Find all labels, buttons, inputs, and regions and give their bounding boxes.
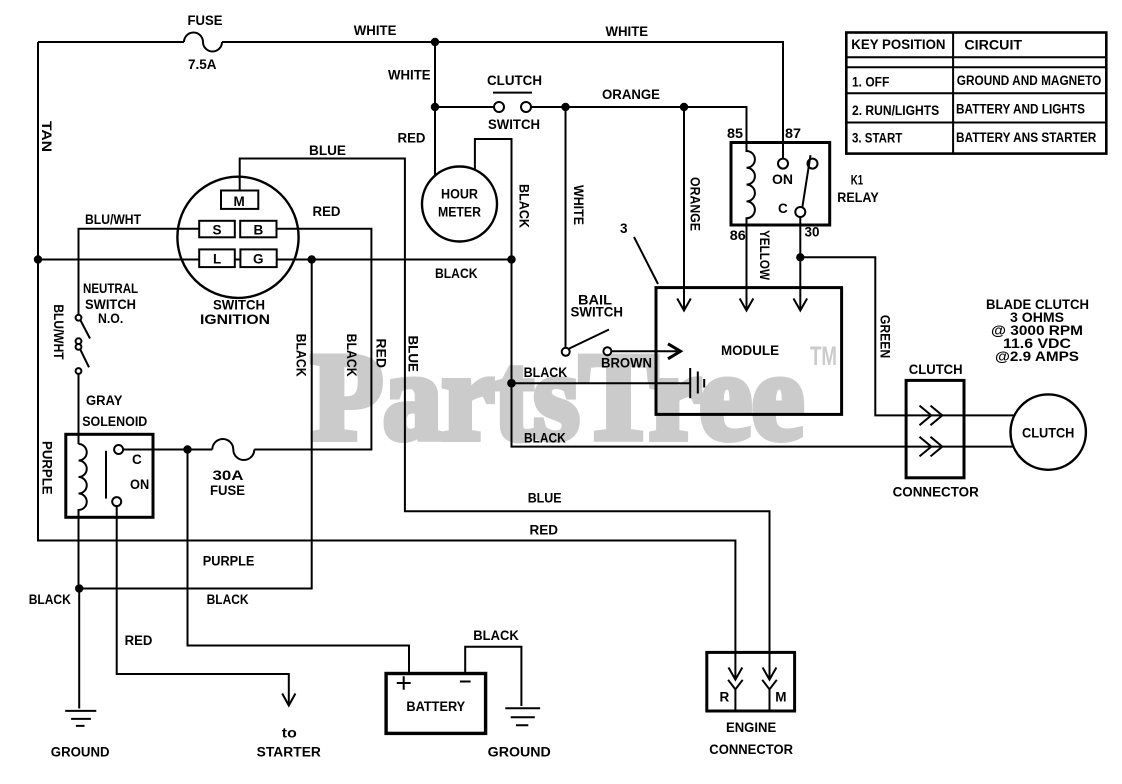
svg-text:SWITCH: SWITCH <box>213 298 265 313</box>
junction white drop <box>561 103 569 111</box>
neutral switch contact 3 <box>76 344 82 350</box>
relay K1 box <box>731 143 830 226</box>
junction module black <box>507 379 516 388</box>
junction top white <box>431 38 439 46</box>
svg-text:PURPLE: PURPLE <box>203 554 255 569</box>
wire ORANGE horizontal to relay pin 85 <box>531 107 747 143</box>
svg-text:ORANGE: ORANGE <box>602 87 660 102</box>
svg-text:RED: RED <box>313 204 341 219</box>
ignition terminal M <box>221 191 258 209</box>
svg-text:KEY POSITION: KEY POSITION <box>851 37 945 52</box>
svg-text:1. OFF: 1. OFF <box>852 75 889 90</box>
ground symbol right <box>505 708 540 725</box>
svg-text:HOUR: HOUR <box>441 187 478 202</box>
engine connector pin R fork <box>728 680 743 711</box>
key position table frame <box>846 33 1106 154</box>
svg-text:RED: RED <box>398 130 426 145</box>
main BLACK bus y=259.5 <box>38 259 512 261</box>
svg-text:to: to <box>282 726 297 741</box>
svg-text:7.5A: 7.5A <box>188 57 217 72</box>
svg-text:FUSE: FUSE <box>210 483 245 498</box>
engine connector pin M arrow <box>763 652 777 679</box>
svg-text:BLACK: BLACK <box>294 334 309 377</box>
starter arrowhead <box>282 694 295 706</box>
svg-text:CLUTCH: CLUTCH <box>909 362 963 377</box>
svg-text:2. RUN/LIGHTS: 2. RUN/LIGHTS <box>852 103 939 118</box>
svg-text:RED: RED <box>530 523 559 538</box>
wire BROWN bail switch to module with arrowhead <box>612 350 678 352</box>
fuse F1 7.5A symbol <box>184 33 222 52</box>
solenoid terminal C <box>114 445 123 454</box>
svg-text:TM: TM <box>810 341 837 371</box>
junction bus left <box>34 255 42 263</box>
neutral switch contact 1 <box>76 315 82 321</box>
wire BLACK vertical from bus to solenoid ground line <box>79 260 312 589</box>
svg-text:GRAY: GRAY <box>86 393 122 408</box>
junction relay 30 / green <box>796 253 804 261</box>
svg-text:BROWN: BROWN <box>601 356 652 371</box>
svg-text:RELAY: RELAY <box>837 190 878 205</box>
svg-text:M: M <box>234 194 245 209</box>
svg-text:B: B <box>254 223 264 238</box>
battery plus sign <box>397 676 411 690</box>
svg-text:IGNITION: IGNITION <box>200 312 270 327</box>
svg-text:G: G <box>253 252 264 267</box>
neutral switch contact 4 <box>76 368 82 374</box>
svg-text:GROUND: GROUND <box>488 744 551 759</box>
svg-text:BLACK: BLACK <box>344 334 359 377</box>
svg-text:30: 30 <box>805 225 820 240</box>
wire TAN/PURPLE left vertical + RED horizontal to engine connector R <box>38 42 735 652</box>
svg-text:BLACK: BLACK <box>435 266 478 281</box>
junction orange drop <box>680 103 688 111</box>
svg-text:ORANGE: ORANGE <box>688 177 703 231</box>
relay pin 87 contact ON <box>778 159 788 169</box>
engine connector pin R arrow <box>729 652 743 679</box>
svg-text:3. START: 3. START <box>852 131 903 146</box>
svg-text:CONNECTOR: CONNECTOR <box>893 485 979 500</box>
svg-text:YELLOW: YELLOW <box>757 230 772 280</box>
bail switch contact 2 <box>603 347 611 355</box>
module box <box>656 288 842 415</box>
wire BLU/WHT from ignition S to neutral switch <box>79 229 200 315</box>
fuse F2 30A symbol <box>212 439 254 460</box>
svg-text:K1: K1 <box>851 173 864 188</box>
svg-text:MODULE: MODULE <box>721 343 779 358</box>
wire ORANGE drop to module with arrowhead <box>683 107 685 311</box>
wire WHITE top horizontal <box>38 42 783 159</box>
module igniter symbol <box>690 368 704 398</box>
wire RED from ignition B down to 30A fuse line <box>254 229 371 450</box>
battery minus sign <box>460 681 471 683</box>
wire RED solenoid ON to starter arrow <box>117 506 289 704</box>
svg-text:ON: ON <box>130 477 149 492</box>
clutch circle <box>1010 394 1085 469</box>
wire to left ground <box>78 589 80 709</box>
ignition terminal B <box>240 221 276 238</box>
svg-text:85: 85 <box>727 126 744 141</box>
svg-text:BLACK: BLACK <box>524 431 566 446</box>
svg-text:ON: ON <box>772 172 793 187</box>
ground symbol left <box>65 711 96 726</box>
callout line 3 to module <box>634 237 658 284</box>
svg-text:R: R <box>720 690 730 705</box>
hour meter HM1 <box>422 167 497 242</box>
svg-text:S: S <box>213 223 222 238</box>
table row lines <box>846 57 1106 122</box>
svg-text:BLUE: BLUE <box>406 336 421 372</box>
svg-text:N.O.: N.O. <box>98 311 123 326</box>
svg-text:METER: METER <box>438 205 481 220</box>
svg-text:TAN: TAN <box>39 121 54 152</box>
svg-text:CLUTCH: CLUTCH <box>1022 426 1074 441</box>
relay switch fixed contact <box>808 159 818 169</box>
wire hour meter BLACK: up over and long vertical to clutch connector <box>475 139 1014 447</box>
svg-text:CIRCUIT: CIRCUIT <box>964 38 1022 53</box>
svg-text:CLUTCH: CLUTCH <box>487 73 542 88</box>
svg-text:BATTERY: BATTERY <box>406 699 465 714</box>
svg-text:RED: RED <box>374 338 389 368</box>
svg-text:BATTERY AND LIGHTS: BATTERY AND LIGHTS <box>956 101 1085 116</box>
svg-text:GREEN: GREEN <box>878 315 893 358</box>
wire YELLOW relay 86 to module with arrowhead <box>746 225 748 311</box>
relay coil <box>747 143 755 226</box>
wire to clutch switch <box>435 106 494 108</box>
svg-text:@2.9 AMPS: @2.9 AMPS <box>995 349 1079 364</box>
neutral switch blade 2 <box>80 350 89 368</box>
neutral switch blade 1 <box>80 320 90 339</box>
table column divider <box>952 33 954 154</box>
solenoid coil (continues to ground junction) <box>79 444 87 589</box>
wire relay 30 down to module with arrowhead <box>799 217 801 311</box>
svg-text:BLACK: BLACK <box>473 628 519 643</box>
svg-text:SWITCH: SWITCH <box>85 297 136 312</box>
svg-text:BLU/WHT: BLU/WHT <box>51 304 66 360</box>
svg-text:ENGINE: ENGINE <box>726 720 776 735</box>
svg-text:BLACK: BLACK <box>524 365 568 380</box>
ignition terminal G <box>240 249 276 267</box>
clutch connector box <box>906 380 964 477</box>
clutch switch contacts <box>494 102 504 112</box>
svg-text:87: 87 <box>785 126 801 141</box>
ignition switch outer circle <box>177 177 298 298</box>
svg-text:GROUND AND MAGNETO: GROUND AND MAGNETO <box>957 73 1102 88</box>
wire WHITE vertical to hour meter (RED segment) <box>434 42 436 175</box>
solenoid box <box>66 434 153 517</box>
svg-text:SOLENOID: SOLENOID <box>82 414 147 429</box>
wire battery + from 30A junction <box>188 450 410 674</box>
wire WHITE drop to bail switch <box>565 107 567 348</box>
svg-text:SWITCH: SWITCH <box>488 117 540 132</box>
wire BLU/WHT to solenoid coil <box>78 374 80 444</box>
engine connector pin M fork <box>762 680 777 711</box>
wire BLACK junction to module igniter <box>512 382 691 384</box>
svg-text:L: L <box>213 252 221 267</box>
junction bus right end <box>507 255 515 263</box>
bail switch blade <box>569 330 610 349</box>
ignition terminal L <box>199 249 235 267</box>
solenoid contact bar <box>105 451 107 499</box>
clutch connector chevrons bottom <box>920 437 943 457</box>
svg-text:WHITE: WHITE <box>388 68 431 83</box>
svg-text:BLUE: BLUE <box>309 143 346 158</box>
wire BLUE from ignition M up over and down to engine connector M <box>240 159 770 653</box>
battery BT1 <box>386 674 486 734</box>
svg-text:86: 86 <box>730 228 747 243</box>
svg-text:FUSE: FUSE <box>188 13 223 28</box>
clutch connector chevrons top <box>920 406 943 426</box>
bail switch contact 1 <box>562 348 570 356</box>
solenoid terminal ON <box>112 497 121 506</box>
svg-text:GROUND: GROUND <box>51 744 110 759</box>
wire from solenoid C to 30A fuse and junction <box>123 449 212 451</box>
junction white/clutch-switch <box>431 103 439 111</box>
svg-text:WHITE: WHITE <box>606 24 649 39</box>
wire battery - to right ground <box>465 647 521 706</box>
svg-text:BLUE: BLUE <box>528 491 562 506</box>
engine connector box <box>707 652 795 711</box>
svg-text:SWITCH: SWITCH <box>571 305 624 320</box>
svg-text:30A: 30A <box>213 468 244 483</box>
svg-text:NEUTRAL: NEUTRAL <box>83 281 138 296</box>
svg-text:M: M <box>775 690 786 705</box>
ignition terminal S <box>199 221 235 238</box>
svg-text:BLACK: BLACK <box>517 184 532 228</box>
svg-text:3: 3 <box>620 221 628 236</box>
svg-text:WHITE: WHITE <box>571 185 586 225</box>
svg-text:RED: RED <box>125 633 153 648</box>
clutch switch label underline <box>493 92 532 94</box>
svg-text:BLU/WHT: BLU/WHT <box>85 212 142 227</box>
wire GREEN to clutch connector <box>800 257 1014 415</box>
svg-text:BATTERY ANS STARTER: BATTERY ANS STARTER <box>956 130 1097 145</box>
svg-text:STARTER: STARTER <box>257 744 321 759</box>
junction 30A fuse <box>183 445 191 453</box>
relay switch common contact <box>795 207 805 217</box>
svg-text:PURPLE: PURPLE <box>40 441 55 495</box>
relay blade <box>802 155 810 207</box>
svg-text:C: C <box>778 201 788 216</box>
svg-text:WHITE: WHITE <box>354 23 397 38</box>
svg-text:BLACK: BLACK <box>29 592 71 607</box>
neutral switch contact 2 <box>76 338 82 344</box>
junction ground <box>75 584 83 592</box>
junction bus mid (black vertical) <box>308 255 316 263</box>
svg-text:CONNECTOR: CONNECTOR <box>709 742 793 757</box>
svg-text:BLACK: BLACK <box>207 592 249 607</box>
svg-text:C: C <box>132 452 142 467</box>
